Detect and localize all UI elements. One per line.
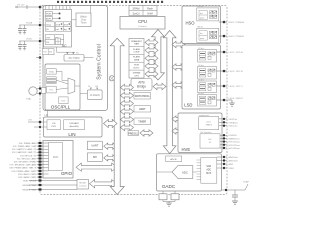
svg-text:Vreg: Vreg — [46, 23, 51, 26]
svg-text:(Cortex): (Cortex) — [139, 25, 147, 28]
ADCIF box — [166, 156, 182, 162]
memory stack box — [129, 39, 144, 79]
svg-text:RC: RC — [76, 53, 80, 55]
block GPIO container — [43, 141, 73, 179]
block GADC — [157, 154, 222, 191]
svg-text:HVIO1/Dout: HVIO1/Dout — [229, 141, 241, 144]
RC box title label — [76, 53, 80, 55]
GADC pins — [217, 157, 227, 168]
svg-text:drv: drv — [200, 33, 203, 35]
svg-text:SAR: SAR — [206, 165, 211, 168]
GPIO inner mux — [49, 143, 63, 171]
svg-text:Control: Control — [79, 185, 87, 188]
wire LIN phy to pin — [40, 122, 47, 127]
wire ADC to mux — [193, 171, 197, 173]
svg-text:OV: OV — [46, 42, 50, 44]
svg-text:HS drv: HS drv — [197, 27, 203, 29]
svg-text:I²C: I²C — [62, 44, 67, 48]
wire top to watchdog — [90, 6, 92, 14]
HVE box2 pins — [220, 135, 227, 148]
crystal — [26, 87, 41, 101]
svg-text:MODE0 / DBG: MODE0 / DBG — [23, 185, 37, 187]
mux input wires — [56, 71, 80, 89]
svg-text:IO: IO — [209, 142, 212, 144]
block System Control container — [43, 6, 108, 111]
svg-text:VREG: VREG — [206, 125, 212, 127]
GPIO pins — [9, 142, 48, 179]
arrow UART to bus — [104, 143, 117, 149]
arrow bridge to bus A — [153, 83, 166, 89]
LSO pin 3 — [217, 85, 244, 89]
HVE box 1 — [199, 114, 219, 130]
wire oscpll to clkgen — [80, 93, 87, 95]
peripheral bowtie column — [121, 84, 134, 90]
svg-text:AIN0/Vdiv: AIN0/Vdiv — [229, 156, 239, 159]
svg-text:NVM: NVM — [147, 12, 152, 15]
svg-text:MUX: MUX — [206, 173, 212, 175]
bus L vertical arrow — [110, 38, 124, 194]
svg-text:CPU: CPU — [138, 19, 147, 24]
svg-text:TIMER: TIMER — [138, 121, 146, 124]
svg-text:VS 12V: VS 12V — [17, 5, 25, 7]
svg-text:LIN: LIN — [28, 120, 32, 122]
svg-text:VCAP: VCAP — [243, 181, 249, 184]
wire into RC box — [57, 47, 76, 55]
arrow LIN to bus — [104, 119, 118, 127]
svg-text:LSO4 / GND-P: LSO4 / GND-P — [229, 98, 244, 100]
svg-text:Flash: Flash — [147, 7, 154, 10]
sub box below block A — [42, 49, 54, 55]
svg-text:ADC: ADC — [206, 169, 211, 172]
svg-text:VDDA: VDDA — [26, 22, 33, 25]
svg-text:LSO3 / OUT-C: LSO3 / OUT-C — [229, 86, 244, 88]
LSO pin 1 — [217, 51, 244, 55]
svg-text:GADC: GADC — [162, 184, 176, 189]
svg-text:ADCIF: ADCIF — [170, 158, 177, 161]
I2C label — [62, 44, 67, 48]
rco box hatched — [47, 77, 57, 84]
block HVE — [178, 113, 222, 153]
svg-text:WAKE/Dout: WAKE/Dout — [229, 137, 240, 140]
svg-text:CFG: CFG — [134, 75, 139, 77]
svg-text:VDD/core: VDD/core — [229, 125, 239, 128]
SAR box with mux ladder — [197, 158, 217, 184]
svg-text:LSO2 / OUT-B: LSO2 / OUT-B — [229, 71, 244, 73]
small grid box — [56, 38, 61, 45]
svg-text:IO0 / PWM0 / AIN0: IO0 / PWM0 / AIN0 — [19, 142, 37, 145]
bus R vertical arrow — [152, 30, 165, 81]
svg-text:XTAL: XTAL — [49, 71, 55, 74]
connector symbol on system control — [109, 76, 114, 81]
HSO cell 1 — [197, 6, 219, 21]
svg-text:BOR: BOR — [46, 19, 51, 21]
svg-text:HSO1 / PWM-A: HSO1 / PWM-A — [229, 21, 245, 24]
svg-text:OSC/PLL: OSC/PLL — [51, 105, 71, 110]
svg-text:SPI: SPI — [93, 155, 97, 159]
HSO pin 2 — [219, 35, 245, 39]
svg-text:VSUP/Vs: VSUP/Vs — [229, 119, 238, 121]
svg-text:RAM: RAM — [134, 43, 139, 46]
svg-text:MODE: MODE — [79, 183, 86, 185]
block OSC/PLL — [45, 64, 80, 110]
block HSO — [182, 6, 221, 44]
svg-text:pwm: pwm — [200, 38, 205, 40]
svg-text:UART: UART — [91, 144, 98, 148]
xtal io cell — [42, 88, 46, 94]
svg-text:SRAM/RET: SRAM/RET — [131, 40, 142, 43]
left pin VDDD with caps — [18, 39, 41, 50]
svg-text:GPIO: GPIO — [61, 171, 73, 176]
svg-text:IO7 / SPI-MOSI / CAP / AIN4: IO7 / SPI-MOSI / CAP / AIN4 — [10, 164, 37, 167]
svg-text:drv: drv — [200, 13, 203, 15]
svg-text:PRESCL: PRESCL — [128, 132, 139, 135]
svg-text:HSO: HSO — [185, 21, 195, 26]
arrow MODE to bus wide — [90, 180, 117, 188]
svg-text:MODE1 / DBG: MODE1 / DBG — [23, 190, 37, 192]
LIN pin label — [45, 114, 49, 117]
HVE box 2 — [200, 131, 220, 148]
LSO cell 4 — [198, 93, 217, 106]
wire RC to right — [84, 57, 94, 59]
svg-text:HS drv: HS drv — [197, 6, 203, 8]
svg-text:pwm: pwm — [200, 17, 205, 19]
LSO cell 1 — [198, 48, 217, 62]
monitor table lower — [45, 35, 64, 45]
SPI box — [88, 153, 103, 162]
left pin VDDA with caps — [18, 22, 41, 34]
svg-text:CLKGEN: CLKGEN — [90, 94, 100, 97]
pll box — [47, 86, 57, 93]
arrow bus R to LSO lower — [172, 116, 185, 122]
LIN PHY box — [47, 120, 61, 130]
memory row connectors — [145, 39, 158, 45]
svg-text:HSO2 / PWM-B: HSO2 / PWM-B — [229, 36, 245, 38]
block LIN container — [44, 117, 103, 137]
clock mux — [68, 78, 75, 94]
svg-text:PHY: PHY — [51, 126, 56, 128]
svg-text:Timer: Timer — [80, 22, 86, 25]
svg-text:XTAL: XTAL — [26, 98, 32, 101]
POR row — [45, 12, 60, 16]
arrow bus R to HVE — [172, 128, 185, 134]
svg-text:LIN: LIN — [52, 123, 56, 125]
ADC chevron — [172, 166, 193, 179]
svg-text:TM: TM — [43, 52, 46, 54]
arrow GPIO to bus wide — [76, 163, 117, 171]
svg-text:LSO1 / OUT-A: LSO1 / OUT-A — [229, 51, 244, 54]
svg-text:OVT: OVT — [46, 37, 51, 39]
GADC bottom pads — [159, 191, 179, 206]
svg-text:ref: ref — [56, 28, 59, 31]
arrow bus R to LSO — [172, 82, 185, 88]
chip boundary dashed — [40, 6, 227, 195]
svg-text:HVIO2/Dout: HVIO2/Dout — [229, 144, 241, 147]
CLKGEN box — [87, 90, 102, 100]
svg-text:LDO: LDO — [206, 122, 211, 124]
regulator table left — [46, 22, 55, 31]
LSO pin 2 — [217, 70, 244, 74]
svg-text:IO4 / SPI-CS / T2: IO4 / SPI-CS / T2 — [20, 155, 37, 157]
svg-text:ROM: ROM — [134, 65, 139, 67]
peripheral box TIMER — [134, 118, 151, 125]
HVE box1 pins — [219, 119, 227, 126]
peripheral box UART — [134, 106, 151, 113]
svg-text:(AutoSB): (AutoSB) — [70, 125, 79, 128]
BOR row — [45, 16, 60, 20]
HSO pin 1 — [219, 21, 245, 25]
arrow bus R to HSO — [172, 41, 185, 47]
bottom right wire and cap — [222, 181, 250, 205]
svg-text:HV: HV — [208, 139, 212, 141]
svg-text:2k: 2k — [88, 86, 90, 88]
left pin RSTB — [36, 56, 41, 59]
LIN CTRL box — [64, 120, 85, 130]
svg-text:VREF: VREF — [229, 168, 235, 170]
svg-text:WATCHDOG: WATCHDOG — [135, 95, 150, 98]
svg-text:IO6 / SPI-MISO / PWM2: IO6 / SPI-MISO / PWM2 — [14, 162, 37, 164]
memory table above CPU — [129, 6, 157, 16]
svg-text:VDDA/out: VDDA/out — [229, 121, 239, 124]
ground right — [229, 100, 235, 106]
peripheral box WDG — [134, 93, 151, 100]
left supply pin VS — [16, 5, 42, 10]
MODE control box — [77, 180, 89, 190]
block LSO — [182, 45, 221, 109]
svg-text:BG: BG — [49, 52, 52, 54]
svg-text:LIN: LIN — [45, 114, 49, 117]
svg-text:IO8 / PWM3 / AIN5 / TMR / X: IO8 / PWM3 / AIN5 / TMR / X — [9, 167, 36, 170]
svg-text:SRAM: SRAM — [133, 7, 140, 10]
UART box — [88, 141, 103, 150]
svg-text:IO9 / PWM4 / AIN6 / CAP2: IO9 / PWM4 / AIN6 / CAP2 — [12, 170, 38, 173]
clkgen arrows — [88, 86, 98, 89]
svg-text:LIN: LIN — [68, 132, 75, 137]
regulator table right — [56, 22, 72, 31]
svg-text:HVIO3/Dout: HVIO3/Dout — [229, 147, 241, 150]
wire oscpll to lin — [47, 111, 49, 118]
xtal osc box — [47, 69, 57, 74]
arrow bus R to LSO mid — [172, 64, 185, 70]
RC trimmed oscillator box — [64, 55, 84, 62]
svg-text:POR: POR — [46, 14, 51, 16]
svg-text:CODE: CODE — [133, 52, 140, 54]
wire gadc left to chevron — [157, 171, 173, 173]
top pin tick marks — [57, 1, 163, 3]
svg-text:System Control: System Control — [97, 44, 103, 79]
HSO cell 2 — [197, 27, 219, 43]
block CPU — [120, 17, 165, 30]
divider box — [59, 97, 68, 104]
svg-text:TEST / MODE: TEST / MODE — [23, 181, 37, 183]
LSO cell 3 — [198, 79, 217, 92]
svg-text:RC TRIM: RC TRIM — [69, 56, 80, 60]
bottom left pins — [23, 179, 77, 182]
LIN pin — [28, 120, 41, 129]
svg-text:BOOT: BOOT — [134, 67, 141, 69]
svg-text:IO10 / AIN7 / CMP0: IO10 / AIN7 / CMP0 — [18, 173, 37, 176]
arrow SPI to bus — [104, 155, 117, 161]
svg-text:FLASH: FLASH — [133, 56, 140, 59]
svg-text:NVRAM: NVRAM — [133, 72, 141, 75]
pin comb above block A — [46, 6, 71, 10]
svg-text:IO3 / UART-RX / CAP / T1: IO3 / UART-RX / CAP / T1 — [12, 151, 37, 154]
svg-text:FLASH: FLASH — [133, 48, 140, 51]
block A supply/reset — [44, 10, 72, 48]
svg-text:IO1 / PWM1 / AIN1 / CAP: IO1 / PWM1 / AIN1 / CAP — [13, 145, 37, 148]
svg-text:UART: UART — [139, 108, 146, 111]
bus B vertical arrow long — [163, 31, 176, 154]
svg-text:LSD: LSD — [184, 103, 192, 108]
svg-text:MUX: MUX — [53, 156, 59, 159]
svg-text:LIN/UART: LIN/UART — [69, 122, 80, 125]
svg-text:IO11 / AIN8 / CMP1: IO11 / AIN8 / CMP1 — [18, 176, 37, 179]
wire box A to watchdog — [72, 19, 77, 21]
svg-text:SysCtl: SysCtl — [133, 12, 140, 15]
peripheral box PWM — [128, 131, 139, 136]
arrow PWM to bus R — [140, 130, 153, 136]
APB bridge box — [131, 79, 152, 91]
LSO pin 4 — [217, 98, 244, 101]
LSO cell 2 — [198, 65, 217, 79]
svg-text:ADC: ADC — [182, 170, 188, 174]
svg-text:AIN1/Vdiv: AIN1/Vdiv — [229, 160, 239, 163]
svg-text:HVE: HVE — [182, 147, 191, 152]
svg-text:DATA: DATA — [134, 59, 140, 62]
svg-text:IO2 / UART-TX / AIN2 / T0: IO2 / UART-TX / AIN2 / T0 — [12, 148, 37, 151]
watchdog box — [76, 13, 91, 26]
wires into block A — [40, 7, 46, 41]
svg-text:LIN/BUS: LIN/BUS — [229, 135, 238, 137]
svg-text:IO5 / SPI-CLK / AIN3: IO5 / SPI-CLK / AIN3 — [17, 157, 37, 160]
svg-text:DIV: DIV — [62, 100, 66, 102]
svg-text:Bridge: Bridge — [137, 85, 146, 89]
svg-text:VDDD: VDDD — [26, 39, 33, 41]
